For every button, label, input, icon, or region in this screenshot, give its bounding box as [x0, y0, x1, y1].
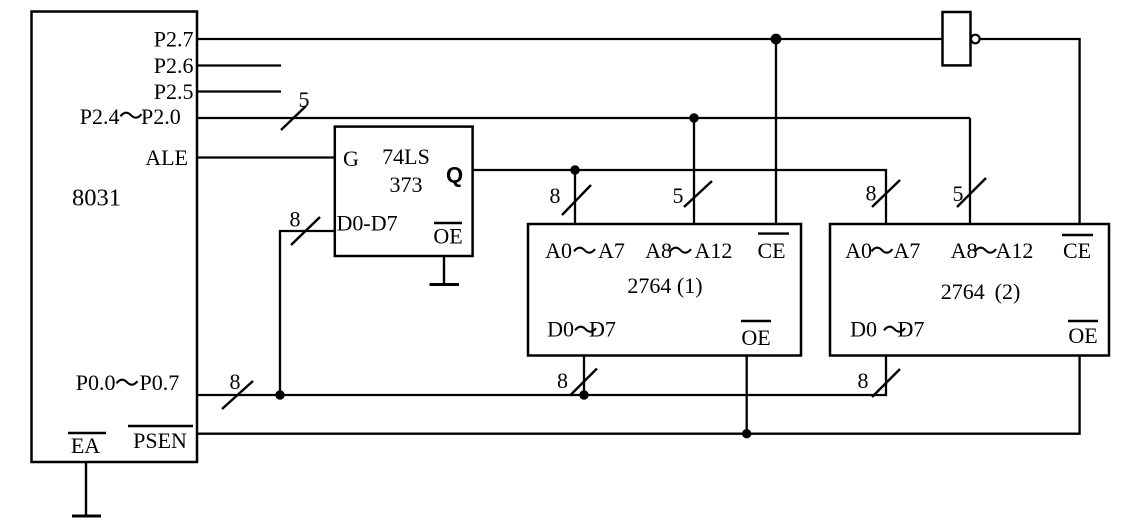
- svg-text:8: 8: [230, 369, 241, 394]
- junction dot P2.7/CE1: [771, 34, 782, 45]
- pin label EA with overline: [68, 433, 106, 458]
- svg-text:A12: A12: [695, 238, 733, 263]
- ROM2 pin label OE with overline: [1068, 321, 1098, 348]
- wire OE1 vertical: [746, 356, 748, 434]
- wire A8-A12 ROM2 vertical: [969, 118, 971, 224]
- svg-text:EA: EA: [71, 433, 100, 458]
- svg-text:P0.0: P0.0: [76, 370, 116, 395]
- svg-text:A7: A7: [894, 238, 921, 263]
- svg-text:D0-D7: D0-D7: [337, 211, 398, 236]
- bus slash 8 on P0 bus: [222, 369, 253, 409]
- ROM1 pin label D0~D7: [547, 317, 616, 342]
- wire P2.4-P2.0 bus: [197, 117, 970, 119]
- latch pin label OE with overline: [433, 223, 462, 249]
- svg-text:P2.7: P2.7: [154, 27, 194, 52]
- EPROM U3 2764(1) box: [528, 224, 801, 356]
- svg-text:D7: D7: [589, 317, 616, 342]
- wire D0-D7 latch input: [280, 231, 335, 395]
- svg-text:P2.0: P2.0: [141, 104, 181, 129]
- junction dot P0 bus/D0-D7 ROM1: [579, 390, 588, 399]
- bus slash 8 on D0-D7 ROM1: [557, 368, 597, 396]
- ROM2 pin label CE with overline: [1062, 235, 1093, 263]
- pin label P0.0~P0.7: [76, 370, 180, 395]
- ROM1 pin label A0~A7: [545, 238, 625, 263]
- svg-text:A0: A0: [545, 238, 572, 263]
- svg-text:8: 8: [550, 183, 561, 208]
- pin label P2.4~P2.0: [80, 104, 181, 129]
- svg-text:P2.4: P2.4: [80, 104, 120, 129]
- wire ALE to latch G: [197, 156, 335, 158]
- svg-text:373: 373: [390, 172, 423, 197]
- bus slash 8 on latch D0-D7: [290, 207, 321, 246]
- ROM1 pin label A8~A12: [645, 238, 732, 263]
- wire CE2 vertical from inverter output: [980, 39, 1080, 224]
- svg-text:A8: A8: [645, 238, 672, 263]
- bus slash 5 on A8-A12 ROM1: [673, 181, 713, 208]
- junction dot P2.4 bus/A8-A12 ROM1: [689, 113, 698, 122]
- ROM1 pin label CE with overline: [757, 234, 789, 263]
- ROM2 pin label A0~A7: [845, 238, 920, 263]
- bus slash 8 on A0-A7 ROM2: [866, 180, 901, 207]
- bus slash 8 on D0-D7 ROM2: [858, 368, 901, 397]
- svg-text:OE: OE: [1068, 323, 1097, 348]
- inverter gate body: [943, 12, 971, 65]
- svg-text:5: 5: [299, 87, 310, 112]
- pin label PSEN with overline: [128, 426, 193, 453]
- ROM1 pin label OE with overline: [741, 321, 771, 350]
- junction dot PSEN/OE1: [742, 429, 751, 438]
- svg-text:OE: OE: [741, 325, 770, 350]
- svg-text:A0: A0: [845, 238, 872, 263]
- wire P0 data bus horizontal: [197, 356, 886, 396]
- wire PSEN net: [197, 356, 1080, 434]
- wire CE1 vertical from P2.7: [775, 39, 777, 224]
- wire A8-A12 ROM1 vertical: [693, 118, 695, 224]
- junction dot P0 bus/latch D0-D7: [275, 390, 284, 399]
- bus slash 8 on A0-A7 ROM1: [550, 183, 592, 215]
- svg-text:A12: A12: [996, 238, 1034, 263]
- wire P2.6 stub: [197, 64, 281, 66]
- svg-text:CE: CE: [757, 238, 785, 263]
- junction dot Q bus/A0-A7 ROM1: [570, 165, 579, 174]
- svg-text:2764 (2): 2764 (2): [941, 279, 1021, 304]
- EPROM U4 2764(2) box: [830, 224, 1109, 356]
- svg-text:74LS: 74LS: [382, 144, 430, 169]
- svg-text:OE: OE: [433, 224, 462, 249]
- svg-text:8031: 8031: [72, 185, 121, 212]
- latch U2 74LS373 box: [335, 127, 473, 256]
- ROM2 pin label A8~A12: [951, 238, 1034, 263]
- svg-text:8: 8: [557, 368, 568, 393]
- svg-text:P0.7: P0.7: [140, 370, 180, 395]
- svg-text:D0: D0: [850, 317, 877, 342]
- svg-text:Q: Q: [446, 163, 463, 188]
- ground below latch OE: [430, 256, 460, 285]
- inverter bubble: [971, 35, 980, 44]
- svg-text:A8: A8: [951, 238, 978, 263]
- svg-text:ALE: ALE: [145, 145, 188, 170]
- svg-text:2764 (1): 2764 (1): [627, 273, 702, 298]
- microcontroller U1 8031 box: [32, 12, 198, 463]
- svg-text:PSEN: PSEN: [133, 428, 187, 453]
- wire latch Q output bus: [473, 170, 886, 224]
- ROM2 pin label D0~D7: [850, 317, 924, 342]
- ground below EA: [72, 462, 101, 516]
- svg-text:5: 5: [953, 181, 964, 206]
- svg-text:P2.6: P2.6: [154, 53, 194, 78]
- svg-text:D7: D7: [898, 317, 925, 342]
- svg-text:G: G: [343, 146, 359, 171]
- wire D0-D7 ROM1 vertical: [583, 356, 585, 396]
- svg-text:P2.5: P2.5: [154, 79, 194, 104]
- wire P2.7 net: [197, 38, 943, 40]
- bus slash 5 on A8-A12 ROM2: [953, 178, 987, 207]
- svg-text:8: 8: [858, 368, 869, 393]
- svg-text:A7: A7: [598, 238, 625, 263]
- wire A0-A7 ROM1 vertical: [574, 170, 576, 224]
- svg-text:CE: CE: [1063, 238, 1091, 263]
- bus slash 5 on P2.4-P2.0: [281, 87, 310, 130]
- svg-text:8: 8: [866, 181, 877, 206]
- svg-text:8: 8: [290, 207, 301, 232]
- svg-text:D0: D0: [547, 317, 574, 342]
- svg-text:5: 5: [673, 183, 684, 208]
- wire P2.5 stub: [197, 90, 281, 92]
